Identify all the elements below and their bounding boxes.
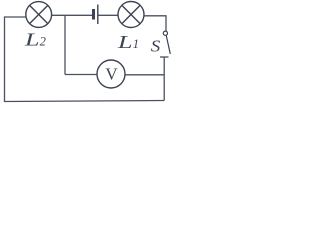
label L1 [117, 32, 139, 52]
wire top-left segment [5, 17, 26, 102]
switch S [160, 31, 170, 57]
label L2 [24, 29, 46, 49]
wire lamp L2 to battery [52, 14, 93, 16]
wire battery to lamp L1 [99, 14, 119, 16]
wire voltmeter to right side [125, 74, 164, 76]
svg-text:S: S [151, 36, 161, 55]
wire switch down right side [163, 57, 165, 101]
wire lamp L1 to switch [144, 16, 166, 31]
node junction (branch to voltmeter) [64, 15, 66, 74]
wire bottom [5, 101, 165, 102]
svg-text:1: 1 [133, 37, 139, 51]
voltmeter V [97, 60, 125, 88]
svg-text:V: V [105, 64, 118, 83]
label S [151, 36, 161, 55]
battery [94, 5, 98, 25]
wire branch to voltmeter [65, 74, 97, 76]
svg-text:2: 2 [40, 35, 46, 49]
lamp L2 [26, 2, 52, 28]
lamp L1 [118, 2, 144, 28]
svg-text:L: L [24, 29, 40, 49]
svg-text:L: L [117, 32, 133, 52]
